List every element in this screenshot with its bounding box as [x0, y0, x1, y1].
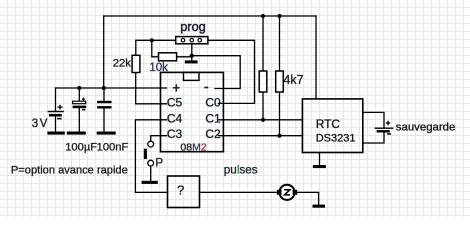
- svg-text:C5: C5: [167, 96, 183, 110]
- wire 10k left lead: [152, 40, 159, 57]
- svg-text:pulses: pulses: [224, 164, 258, 177]
- junction dot C2 net: [277, 134, 281, 138]
- label battery 3V plus: [57, 105, 62, 110]
- battery sauvegarde plates: [375, 128, 394, 131]
- svg-text:100nF: 100nF: [97, 141, 129, 153]
- wire top supply rail: [104, 15, 316, 17]
- svg-text:22k: 22k: [113, 58, 132, 70]
- wire right rail drop to RTC top pin: [315, 16, 317, 99]
- resistor 10k body: [159, 53, 177, 61]
- battery 3V plates: [48, 112, 64, 116]
- wire 100uF bottom stub: [78, 108, 80, 132]
- wire motor to ground: [297, 192, 319, 204]
- IC U2 RTC DS3231 box: [302, 99, 362, 153]
- wire 10k right lead: [177, 56, 192, 58]
- svg-text:C3: C3: [167, 127, 183, 141]
- wire left rail drop to 3V node: [103, 16, 105, 88]
- label pin minus: [204, 87, 208, 89]
- wire C4 pin to ? box: [135, 120, 167, 193]
- ground bar prog net: [185, 60, 198, 63]
- svg-text:100µF: 100µF: [65, 141, 97, 153]
- wire ? box to motor: [200, 191, 278, 193]
- wire switch P to ground: [150, 166, 152, 181]
- wire 4k7 R2 bottom lead to C2 net: [279, 92, 281, 136]
- svg-text:08M2: 08M2: [180, 141, 206, 153]
- switch P pushbutton: [144, 141, 154, 166]
- wire RTC ground stub: [319, 153, 321, 166]
- svg-text:C4: C4: [167, 111, 183, 125]
- svg-text:P: P: [155, 157, 163, 169]
- wire 100nF top stub: [103, 88, 105, 101]
- junction dot ground net: [190, 54, 194, 58]
- wire C1 pin to RTC: [219, 119, 303, 121]
- wire 4k7 R1 top lead: [262, 16, 264, 71]
- label 100uF plus: [82, 98, 85, 101]
- label pin plus: [173, 84, 180, 91]
- resistor 4k7 R2 body: [276, 71, 284, 92]
- wire battery 3V bottom stub: [55, 116, 57, 132]
- wire 100nF bottom stub: [103, 108, 105, 132]
- wire C2 pin to RTC: [219, 135, 303, 137]
- wire C3 pin to switch P: [151, 136, 167, 142]
- svg-text:V: V: [40, 118, 48, 130]
- wire prog middle pin to ground: [191, 44, 193, 61]
- IC U1 notch: [184, 72, 200, 80]
- wire 22k bottom lead to C5 pin: [136, 73, 167, 104]
- ground bar 100nF: [97, 132, 116, 135]
- junction dot 22k-10k node: [150, 38, 154, 42]
- connector prog: [176, 37, 208, 44]
- motor M1 (clock coil): [277, 185, 297, 200]
- capacitor 100nF plates: [97, 102, 111, 107]
- svg-text:3: 3: [32, 118, 38, 130]
- junction dot rail R1: [261, 14, 265, 18]
- svg-text:C2: C2: [205, 127, 221, 141]
- label 100uF minus: [82, 109, 85, 111]
- capacitor 100uF plates: [73, 101, 87, 107]
- svg-text:C1: C1: [205, 111, 221, 125]
- wire 3V rail to 08M2 plus pin: [56, 87, 167, 89]
- label sauvegarde minus: [387, 133, 391, 135]
- label battery 3V minus: [57, 118, 61, 120]
- svg-text:?: ?: [177, 183, 184, 198]
- junction dot 100nF node: [102, 86, 106, 90]
- resistor 22k body: [132, 55, 140, 72]
- wire RTC to backup battery top: [363, 112, 384, 127]
- svg-text:C0: C0: [205, 96, 221, 110]
- wire backup battery bottom to RTC: [363, 132, 384, 143]
- junction dot rail R2: [277, 14, 281, 18]
- wire 22k top lead to prog box: [136, 40, 176, 55]
- svg-text:10k: 10k: [149, 62, 168, 74]
- label sauvegarde plus: [386, 121, 390, 126]
- wire 4k7 R1 bottom lead to C1 net: [262, 92, 264, 120]
- svg-text:prog: prog: [180, 19, 206, 34]
- wire prog right pin to C0 pin: [208, 40, 255, 103]
- ground bar switch P: [142, 181, 158, 184]
- svg-text:DS3231: DS3231: [316, 132, 356, 144]
- resistor 4k7 R1 body: [259, 71, 267, 92]
- svg-text:4k7: 4k7: [283, 73, 303, 87]
- svg-text:P=option avance rapide: P=option avance rapide: [11, 165, 128, 177]
- wire 100uF top stub: [78, 88, 80, 101]
- junction dot 100uF node: [77, 86, 81, 90]
- module ? box: [168, 176, 200, 208]
- IC U1 PICAXE 08M2 box: [161, 72, 224, 151]
- ground bar battery 3V: [47, 132, 64, 135]
- svg-text:sauvegarde: sauvegarde: [396, 121, 456, 133]
- ground bar motor: [313, 205, 326, 208]
- wire battery 3V top stub: [55, 88, 57, 111]
- wire 4k7 R2 top lead: [279, 16, 281, 71]
- wire ground net to 08M2 minus pin: [192, 56, 240, 89]
- svg-text:RTC: RTC: [316, 117, 341, 131]
- ground bar RTC: [313, 165, 326, 168]
- junction dot C1 net: [261, 118, 265, 122]
- ground bar 100uF: [67, 132, 86, 135]
